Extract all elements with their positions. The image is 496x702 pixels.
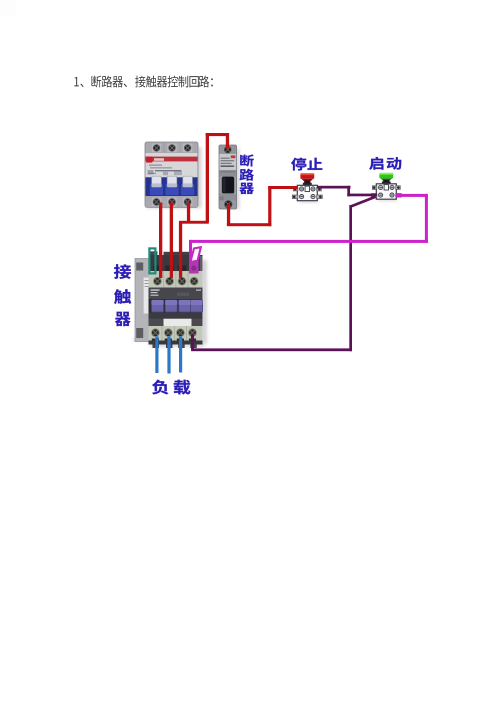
circuit breaker QF1 (3-pole MCB) — [145, 142, 198, 207]
wire load U (blue, vertical x=156.9) — [155, 337, 158, 374]
wire control top link (red, horizontal y=134.6) — [206, 133, 229, 136]
wire into start button left (purple, horizontal y=194.9) — [347, 194, 377, 197]
pushbutton SB2 start (green) — [378, 199, 397, 202]
wire into stop button left (red, horizontal y=187.4) — [268, 186, 298, 189]
T1 terminal marker (teal outline) — [149, 248, 155, 273]
wire L2: MCB pole2 to contactor T2 (red, vertical x=171.3) — [170, 203, 173, 279]
wire QF2 bottom drop (red, vertical x=228.5) — [227, 204, 230, 226]
wire start right out (magenta, horizontal y=195.3) — [396, 194, 428, 197]
label 负载 — [152, 380, 190, 395]
wire coil riser (purple, vertical x=350.6) — [349, 205, 352, 351]
wire stop right to link (purple, horizontal y=187.1) — [317, 186, 351, 189]
contactor KM — [135, 251, 203, 348]
circuit breaker QF2 (1-pole, control) — [219, 145, 237, 209]
wire link step (purple, vertical x=349.3) — [347, 186, 350, 197]
title text: 1、断路器、接触器控制回路： — [74, 76, 213, 88]
label 停止 — [291, 158, 322, 171]
A1 terminal marker flag (magenta outline) — [189, 247, 201, 273]
pushbutton SB1 stop (red) — [299, 200, 318, 203]
shadow under KM — [133, 260, 207, 347]
wire load V (blue, vertical x=169.0) — [167, 337, 170, 374]
wire to contactor A2 (purple, vertical x=192.4) — [191, 334, 194, 350]
wire return run (magenta, horizontal y=241.3) — [189, 240, 428, 243]
label 断路器 (vertical) — [239, 155, 253, 195]
wire L1: MCB pole1 to contactor T1 (red, vertical x=160.6) — [159, 203, 162, 279]
wire drop to contactor A1 (magenta, vertical x=190.5) — [189, 240, 192, 264]
label 启动 — [369, 157, 401, 170]
wire L3 bus (red, horizontal y=222.2) — [179, 221, 209, 224]
wire start left diagonal (purple) — [350, 197, 375, 207]
shadow under QF1 — [147, 147, 202, 209]
wire into QF2 top (red, vertical x=227.4) — [226, 133, 229, 149]
wire riser to stop button (red, vertical x=269.8) — [268, 186, 271, 226]
wire L3 drop from MCB pole3 (red, vertical x=188.5) — [187, 203, 190, 223]
label 接触器 (vertical) — [114, 264, 131, 326]
wire to stop button run (red, horizontal y=224.6) — [227, 223, 271, 226]
wire right drop (magenta, vertical x=426.3) — [425, 194, 428, 243]
shadow under QF2 — [236, 149, 240, 209]
wire load W (blue, vertical x=180.6) — [179, 337, 182, 373]
wire coil run (purple, horizontal y=349.8) — [191, 348, 352, 351]
wire L3 to contactor T3 (red, vertical x=180.4) — [179, 223, 182, 279]
wire L3 riser to control breaker (red, vertical x=207.3) — [206, 133, 209, 222]
